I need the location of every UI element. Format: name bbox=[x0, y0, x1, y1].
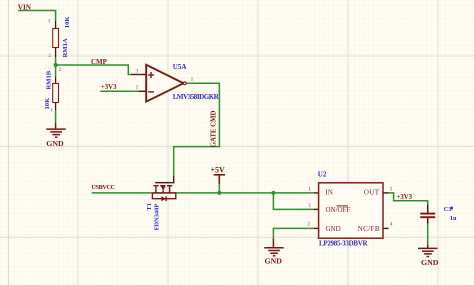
capacitor C3 top lead bbox=[427, 205, 429, 214]
pin label IN bbox=[326, 188, 333, 196]
sheet frame left border bbox=[7, 0, 9, 285]
net label +3V3 left bbox=[101, 84, 117, 91]
value 10K of RM1B bbox=[44, 97, 51, 110]
resistor RM1A bbox=[53, 21, 59, 58]
pin number 3 of U5A bbox=[136, 68, 139, 74]
svg-text:1u: 1u bbox=[450, 215, 457, 222]
net label +3V3 right bbox=[397, 194, 413, 201]
regulator U2 pin 1 lead bbox=[314, 192, 319, 194]
svg-text:OUT: OUT bbox=[364, 188, 380, 196]
ground symbol left bbox=[46, 123, 66, 137]
ground label middle bbox=[265, 257, 283, 266]
pin number 3 of U2 bbox=[308, 203, 311, 209]
pin number 2 of RM1B bbox=[59, 67, 62, 73]
wire CMP bbox=[56, 65, 132, 75]
svg-text:RM1B: RM1B bbox=[45, 70, 52, 89]
pin number 1 of RM1B bbox=[50, 107, 53, 113]
wire RM1B junction to resistor bbox=[55, 65, 57, 77]
value 1u bbox=[450, 215, 457, 222]
op-amp U1 pin 2 lead bbox=[139, 90, 146, 92]
svg-text:LP2985-33DBVR: LP2985-33DBVR bbox=[319, 239, 368, 247]
svg-text:10K: 10K bbox=[44, 97, 51, 110]
value 10K of RM1A bbox=[64, 16, 71, 29]
svg-text:CMP: CMP bbox=[91, 58, 108, 66]
wire GND branch of U2 bbox=[273, 228, 313, 238]
svg-text:1: 1 bbox=[48, 19, 51, 25]
power symbol +5V bbox=[211, 165, 226, 174]
svg-text:GND: GND bbox=[46, 139, 64, 148]
svg-text:+3V3: +3V3 bbox=[397, 194, 413, 201]
pin label NC/FB bbox=[358, 225, 380, 233]
op-amp minus input marker bbox=[148, 91, 154, 93]
svg-text:GND: GND bbox=[265, 257, 283, 266]
pin number 5 of U2 bbox=[390, 186, 393, 192]
ground symbol right bbox=[418, 245, 438, 257]
pin number 2 of U2 bbox=[307, 222, 310, 228]
transistor T1 substrate arrow bbox=[161, 186, 166, 190]
name U5A bbox=[173, 63, 187, 71]
svg-text:+5V: +5V bbox=[211, 165, 226, 174]
net label GATE CMD bbox=[210, 111, 217, 148]
svg-text:LMV358IDGKR: LMV358IDGKR bbox=[173, 93, 220, 101]
pin number 4 of U2 bbox=[390, 222, 393, 228]
wire op-amp output to MOSFET gate bbox=[174, 83, 220, 175]
pin label OUT bbox=[364, 188, 380, 196]
wire VIN to resistor RM1A bbox=[18, 11, 56, 22]
net label USBVCC bbox=[91, 184, 114, 191]
op-amp U5A triangle bbox=[146, 65, 183, 102]
wire RM1A to junction bbox=[55, 58, 57, 65]
svg-text:5: 5 bbox=[390, 186, 393, 192]
junction at +5V bbox=[217, 191, 221, 195]
svg-text:U5A: U5A bbox=[173, 63, 187, 71]
svg-text:ON/OFF: ON/OFF bbox=[326, 206, 351, 214]
value LP2985-33DBVR bbox=[319, 239, 368, 247]
pin number 2 of U5A bbox=[136, 84, 139, 90]
wire OUT to capacitor bbox=[389, 193, 428, 205]
svg-text:2: 2 bbox=[48, 53, 51, 59]
svg-text:3: 3 bbox=[136, 68, 139, 74]
pin number 1 of RM1A bbox=[48, 19, 51, 25]
pin label GND bbox=[326, 225, 341, 233]
svg-text:4: 4 bbox=[390, 222, 393, 228]
wire RM1B to ground bbox=[55, 111, 57, 123]
op-amp U1 pin 3 lead bbox=[131, 74, 146, 76]
svg-text:1: 1 bbox=[191, 77, 194, 83]
name T1 bbox=[146, 203, 153, 211]
svg-text:GND: GND bbox=[326, 225, 341, 233]
net label VIN bbox=[18, 4, 32, 12]
capacitor C3 bottom lead bbox=[427, 218, 429, 224]
net label CMP bbox=[91, 58, 108, 66]
regulator U2 body bbox=[319, 183, 383, 238]
pin number 2 of RM1A bbox=[48, 53, 51, 59]
wire +5V stub bbox=[218, 184, 220, 193]
junction node CMP divider bbox=[54, 63, 58, 67]
name RM1A bbox=[62, 38, 69, 57]
regulator U2 pin 2 lead bbox=[314, 227, 319, 229]
wire +3V3 to op-amp bbox=[100, 90, 139, 92]
wire main 5V rail bbox=[92, 192, 314, 194]
pin number 1 of U5A bbox=[191, 77, 194, 83]
svg-text:C3: C3 bbox=[444, 206, 452, 213]
value FDN340P bbox=[153, 204, 160, 231]
svg-text:FDN340P: FDN340P bbox=[153, 204, 160, 231]
svg-text:2: 2 bbox=[307, 222, 310, 228]
resistor RM1B bbox=[53, 77, 59, 111]
capacitor C3 plates bbox=[420, 214, 435, 218]
pin number 1 of U2 bbox=[308, 186, 311, 192]
transistor T1 body diode bbox=[161, 196, 166, 201]
svg-text:1: 1 bbox=[308, 186, 311, 192]
ground symbol middle bbox=[264, 239, 284, 256]
svg-text:GND: GND bbox=[421, 258, 439, 267]
svg-text:NC/FB: NC/FB bbox=[358, 225, 380, 233]
svg-text:USBVCC: USBVCC bbox=[91, 184, 114, 191]
transistor T1 body bbox=[152, 186, 175, 199]
svg-text:U2: U2 bbox=[318, 171, 327, 179]
svg-text:10K: 10K bbox=[64, 16, 71, 29]
svg-text:GATE CMD: GATE CMD bbox=[210, 111, 217, 148]
wire capacitor to ground bbox=[427, 224, 429, 245]
value LMV358IDGKR bbox=[173, 93, 220, 101]
ground label right bbox=[421, 258, 439, 267]
ground label left bbox=[46, 139, 64, 148]
pin label ON/OFF with overline bbox=[326, 206, 351, 214]
regulator U2 pin 3 lead bbox=[314, 208, 319, 210]
svg-text:+3V3: +3V3 bbox=[101, 84, 117, 91]
svg-text:RM1A: RM1A bbox=[62, 38, 69, 57]
svg-text:IN: IN bbox=[326, 188, 333, 196]
svg-text:T1: T1 bbox=[146, 203, 153, 211]
junction at ON/OFF branch bbox=[271, 191, 275, 195]
regulator U2 pin 5 lead bbox=[383, 192, 389, 194]
transistor T1 substrate stem bbox=[162, 190, 164, 193]
name C3 bbox=[444, 206, 453, 213]
svg-text:3: 3 bbox=[308, 203, 311, 209]
transistor T1 gate lead bbox=[155, 175, 174, 182]
name U2 bbox=[318, 171, 327, 179]
op-amp output bubble bbox=[183, 82, 186, 85]
wire ON/OFF branch bbox=[273, 193, 313, 210]
op-amp plus input marker bbox=[148, 72, 154, 78]
svg-text:2: 2 bbox=[59, 67, 62, 73]
regulator U2 pin 4 lead bbox=[383, 227, 389, 229]
svg-text:2: 2 bbox=[136, 84, 139, 90]
name RM1B bbox=[45, 70, 52, 89]
